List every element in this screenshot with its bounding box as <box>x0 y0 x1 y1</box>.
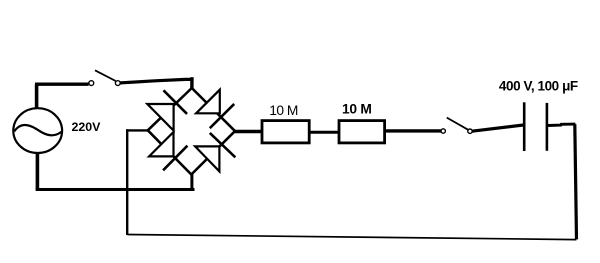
wire: top-left horizontal <box>35 82 89 85</box>
switch S2 lever <box>447 118 468 130</box>
wire: V1 bottom stub <box>36 153 40 190</box>
svg-text:220V: 220V <box>72 120 102 134</box>
switch S1 terminal left <box>89 81 94 86</box>
switch S1 lever <box>95 70 116 81</box>
wire: S1 to bridge top corner <box>120 79 193 83</box>
switch S2 terminal left <box>441 129 445 133</box>
svg-text:10 M: 10 M <box>269 103 298 118</box>
wire: right vertical <box>575 124 577 239</box>
svg-text:10 M: 10 M <box>342 102 372 117</box>
diode D1 bar <box>164 90 188 114</box>
diode D3 triangle <box>149 132 173 156</box>
diode D1 triangle <box>147 104 173 131</box>
diode D2 bar <box>210 104 234 128</box>
diode D3 bar <box>163 146 187 171</box>
resistor R2 <box>339 121 385 143</box>
wire: bottom-mid horizontal <box>36 188 195 191</box>
AC source V1 <box>13 108 62 153</box>
wire: bridge right to R1 <box>235 130 263 134</box>
diode D2 triangle <box>196 90 220 114</box>
capacitor C1 left plate <box>523 102 526 151</box>
bridge edge left-bottom <box>148 130 192 174</box>
wire: R1 to R2 <box>311 131 340 134</box>
diode D4 bar <box>210 133 236 157</box>
wire: bridge top stub <box>190 77 193 88</box>
svg-text:400 V, 100 μF: 400 V, 100 μF <box>499 78 578 93</box>
capacitor C1 right plate <box>546 103 549 151</box>
bridge edge top-right <box>192 88 235 131</box>
wire: bottom long return <box>127 235 576 240</box>
wire: riser to bridge left <box>126 129 149 131</box>
resistor R1 <box>262 121 309 143</box>
sine wave of V1 <box>14 125 62 135</box>
bridge edge bottom-right <box>191 131 235 174</box>
wire: R2 to S2 <box>386 129 441 132</box>
wire: capacitor to right corner <box>548 124 575 125</box>
bridge edge top-left <box>148 88 192 130</box>
diode D4 triangle <box>195 146 219 171</box>
wire: V1 top stub <box>35 84 39 109</box>
wire: left vertical riser <box>126 129 128 235</box>
switch S1 terminal right <box>115 81 120 86</box>
wire: bridge bottom stub <box>190 174 193 191</box>
switch S2 terminal right <box>468 129 472 133</box>
wire: S2 to capacitor <box>472 125 523 131</box>
